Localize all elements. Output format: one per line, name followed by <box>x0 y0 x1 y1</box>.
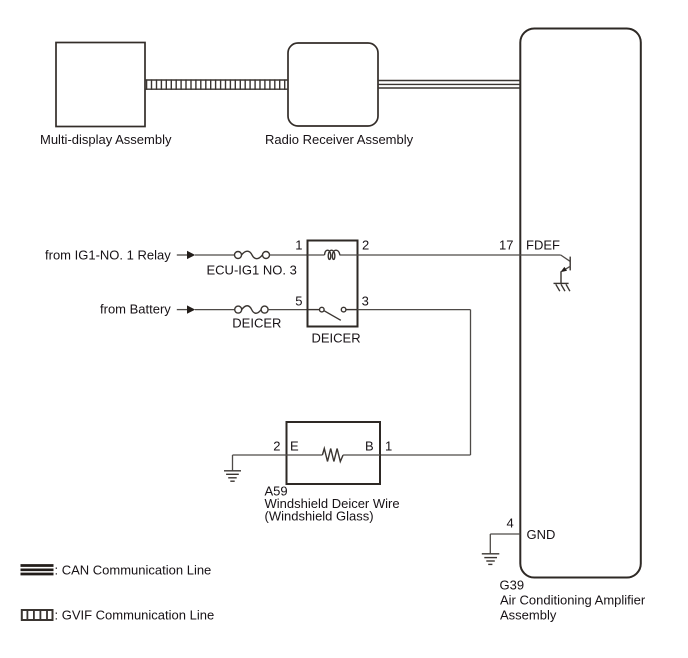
label: G39 Air Conditioning Amplifier Assembly <box>500 578 646 623</box>
wire: riser to A59 pin 1 <box>380 454 471 456</box>
fuse: ECU-IG1 NO. 3 <box>235 251 270 259</box>
ground (earth, amplifier GND) <box>482 554 500 565</box>
wire: A59 internal right lead <box>343 454 380 456</box>
svg-text:Multi-display Assembly: Multi-display Assembly <box>40 132 172 147</box>
svg-text:DEICER: DEICER <box>312 331 361 346</box>
wire: A59 pin 2 to ground <box>233 454 287 456</box>
relay DEICER (box) <box>308 241 358 327</box>
svg-text:ECU-IG1 NO. 3: ECU-IG1 NO. 3 <box>207 263 297 278</box>
svg-text:1: 1 <box>295 238 302 253</box>
connector box: Radio Receiver Assembly <box>288 43 378 126</box>
svg-text:from IG1-NO. 1 Relay: from IG1-NO. 1 Relay <box>45 247 171 262</box>
connector box: Multi-display Assembly <box>56 43 145 127</box>
wire: arrow to fuse ECU-IG1 NO. 3 <box>195 254 235 256</box>
legend symbol: GVIF communication line <box>22 610 53 620</box>
svg-text:17: 17 <box>499 238 513 253</box>
wire: relay pin 2 to amplifier pin 17 FDEF <box>358 254 561 256</box>
svg-text:G39: G39 <box>500 578 525 593</box>
svg-text:Radio Receiver Assembly: Radio Receiver Assembly <box>265 132 414 147</box>
svg-text:FDEF: FDEF <box>526 238 560 253</box>
GVIF communication line (hatched bus between Multi-display and Radio Receiver) <box>145 79 288 89</box>
wire: A59 internal left lead <box>287 454 323 456</box>
arrow (feed from IG1-NO. 1 Relay) <box>177 254 188 256</box>
svg-text:4: 4 <box>506 516 513 531</box>
relay coil <box>325 250 340 259</box>
svg-text:: CAN Communication Line: : CAN Communication Line <box>55 563 212 578</box>
svg-text:DEICER: DEICER <box>232 315 281 330</box>
relay switch blade <box>324 311 341 321</box>
svg-text:: GVIF Communication Line: : GVIF Communication Line <box>55 608 215 623</box>
svg-text:5: 5 <box>295 294 302 309</box>
wire: right riser down to deicer wire <box>470 310 472 455</box>
wire: relay coil lead-in <box>308 254 325 256</box>
wire: fuse to relay pin 1 <box>270 254 308 256</box>
wire: fuse to relay pin 5 <box>268 309 308 311</box>
svg-text:from Battery: from Battery <box>100 302 171 317</box>
resistor (deicer wire element) <box>322 449 343 462</box>
svg-text:2: 2 <box>362 238 369 253</box>
relay switch contacts <box>308 307 358 312</box>
wire: amplifier pin 4 GND lead <box>490 534 520 553</box>
CAN communication line (triple bus between Radio Receiver and Amplifier) <box>378 81 520 89</box>
ground (earth, A59) <box>224 471 241 481</box>
wire: arrow to fuse DEICER <box>195 309 235 311</box>
svg-text:3: 3 <box>362 294 369 309</box>
arrow (feed from Battery) <box>177 309 188 311</box>
svg-text:GND: GND <box>527 527 556 542</box>
svg-text:2: 2 <box>273 439 280 454</box>
wire: relay pin 3 to right riser <box>358 309 471 311</box>
ground (chassis, FDEF internal) <box>554 283 570 291</box>
label: A59 Windshield Deicer Wire (Windshield Glass) <box>265 484 400 524</box>
legend symbol: CAN communication line <box>21 566 54 575</box>
ECU box: Air Conditioning Amplifier Assembly <box>520 29 641 578</box>
svg-text:Air Conditioning Amplifier: Air Conditioning Amplifier <box>500 593 646 608</box>
component box A59 Windshield Deicer Wire <box>287 422 381 484</box>
wire: relay coil lead-out <box>340 254 358 256</box>
svg-text:Assembly: Assembly <box>500 608 557 623</box>
svg-text:(Windshield Glass): (Windshield Glass) <box>265 509 374 524</box>
svg-text:E: E <box>290 439 299 454</box>
transistor (internal switch to ground) <box>560 255 570 283</box>
fuse: DEICER <box>235 306 268 314</box>
svg-text:B: B <box>365 439 374 454</box>
svg-text:1: 1 <box>385 439 392 454</box>
